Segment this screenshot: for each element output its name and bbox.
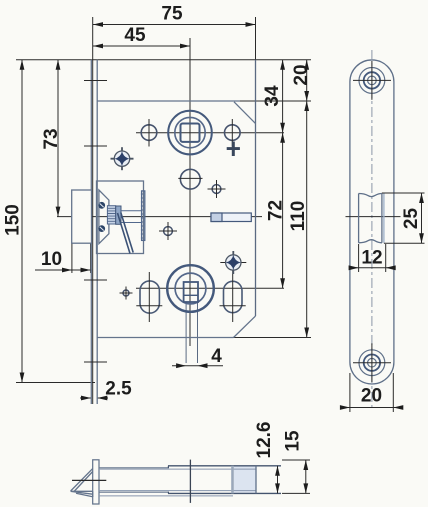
lower hub [167,265,214,312]
faceplate extension line (dark) [92,60,94,404]
strike top screw hole [353,61,391,100]
latch head [72,190,92,243]
cylinder hole below hub [178,169,202,189]
faceplate screw tick marks [84,80,107,82]
small target hole right-middle [208,180,226,198]
lock case outline [97,60,255,338]
dimension 15 (overall thickness) [282,430,310,493]
small target hole lower-left of centre [159,222,177,240]
extension line bottom y337.5 [233,337,311,339]
strike bottom screw hole [353,343,391,382]
vertical center line through spindle x190 [189,38,191,346]
dimension 20 (strike width) [340,373,403,412]
dimension 10 (latch projection) [35,249,92,272]
svg-text:73: 73 [41,128,62,149]
right obround slot [220,255,246,322]
strike recess [359,194,384,243]
bottom view: case right edge [255,466,257,494]
svg-text:10: 10 [41,249,62,270]
dimension 150 (faceplate height) [2,60,23,383]
extension lines for 4 (slot sides) [185,302,187,363]
svg-text:25: 25 [401,208,422,230]
svg-text:12: 12 [361,248,382,269]
small target hole left of lower hub [120,287,133,300]
svg-text:2.5: 2.5 [105,379,132,400]
dimension 72 (spindle to lower hub) [265,133,286,289]
bottom view: case strip outer lines [99,467,169,469]
svg-text:150: 150 [2,204,23,236]
bottom view: centre line crossing [189,460,191,503]
extension line left edge x93 [92,17,94,60]
bottom view: latch axis tick [72,479,106,481]
screw top [98,202,105,209]
upper right hole [225,119,241,147]
bottom view: pale fill in right segment [234,466,256,492]
extension line right edge x255.5 [255,17,257,60]
bottom view: latch wedge [71,469,93,497]
screw stud below upper right hole (bold plus) [227,142,240,157]
extension line y101 right [240,100,311,102]
svg-text:12.6: 12.6 [254,422,275,459]
svg-text:15: 15 [282,430,303,452]
dimension 34 (top to spindle axis) [262,60,283,133]
lever (diagonal) [118,213,131,254]
svg-text:110: 110 [288,201,309,232]
extension/centre line y288.3 lower hub [136,287,284,289]
dimension 45 (backset) [93,25,190,46]
dimension 12.6 (case thickness) [254,422,278,494]
dimension 2.5 (faceplate thickness) [80,379,132,401]
bottom view: case strip inner lines [99,468,256,470]
latch guide trapezoid [99,190,109,244]
dimension 12 (recess width) [349,244,396,272]
dimension 73 (top to latch axis) [41,60,62,217]
latch mechanism box [97,181,145,254]
dimension 25 (recess height) [382,193,425,243]
svg-text:34: 34 [262,85,283,107]
svg-text:4: 4 [211,346,222,367]
extension/centre line y132.7 upper hub [136,132,284,134]
serrated strip [142,191,145,241]
chamfer top-right [234,102,256,124]
chamfer bottom-right [234,316,256,338]
dimension 20 (top band) [291,60,312,101]
magnet pin (horizontal rectangle) [211,213,251,222]
rod lines [121,210,142,212]
upper left hole [141,119,157,147]
svg-text:75: 75 [161,4,183,25]
screw bottom [98,225,105,232]
follower block [116,206,121,224]
top extension line y60 [16,59,311,61]
upper hub (handle follower) [168,111,212,155]
screw boss upper-left (circle with filled star) [111,147,134,170]
svg-text:20: 20 [361,386,382,407]
dimension 4 (lower hub slot) [172,346,223,368]
bottom view: faceplate bar [93,460,99,504]
bottom extension line of 150 at y382.5 [16,382,95,384]
faceplate (forend) [91,60,97,404]
spring [107,206,115,224]
dimension 75 (overall width) [93,4,256,25]
svg-text:45: 45 [124,25,146,46]
left obround slot [136,272,162,322]
dimension 110 (case height) [288,101,309,338]
screw boss above right obround (circle with filled star) [220,251,246,274]
latch axis line y216.6 [57,216,262,218]
svg-text:20: 20 [291,64,312,85]
extension lines for 10 below latch [71,244,73,274]
strike plate outline [350,60,394,384]
bottom view: obround band [231,466,234,494]
strike plate centre line [371,50,373,408]
svg-text:72: 72 [265,200,286,221]
strike latch axis line [346,216,401,218]
